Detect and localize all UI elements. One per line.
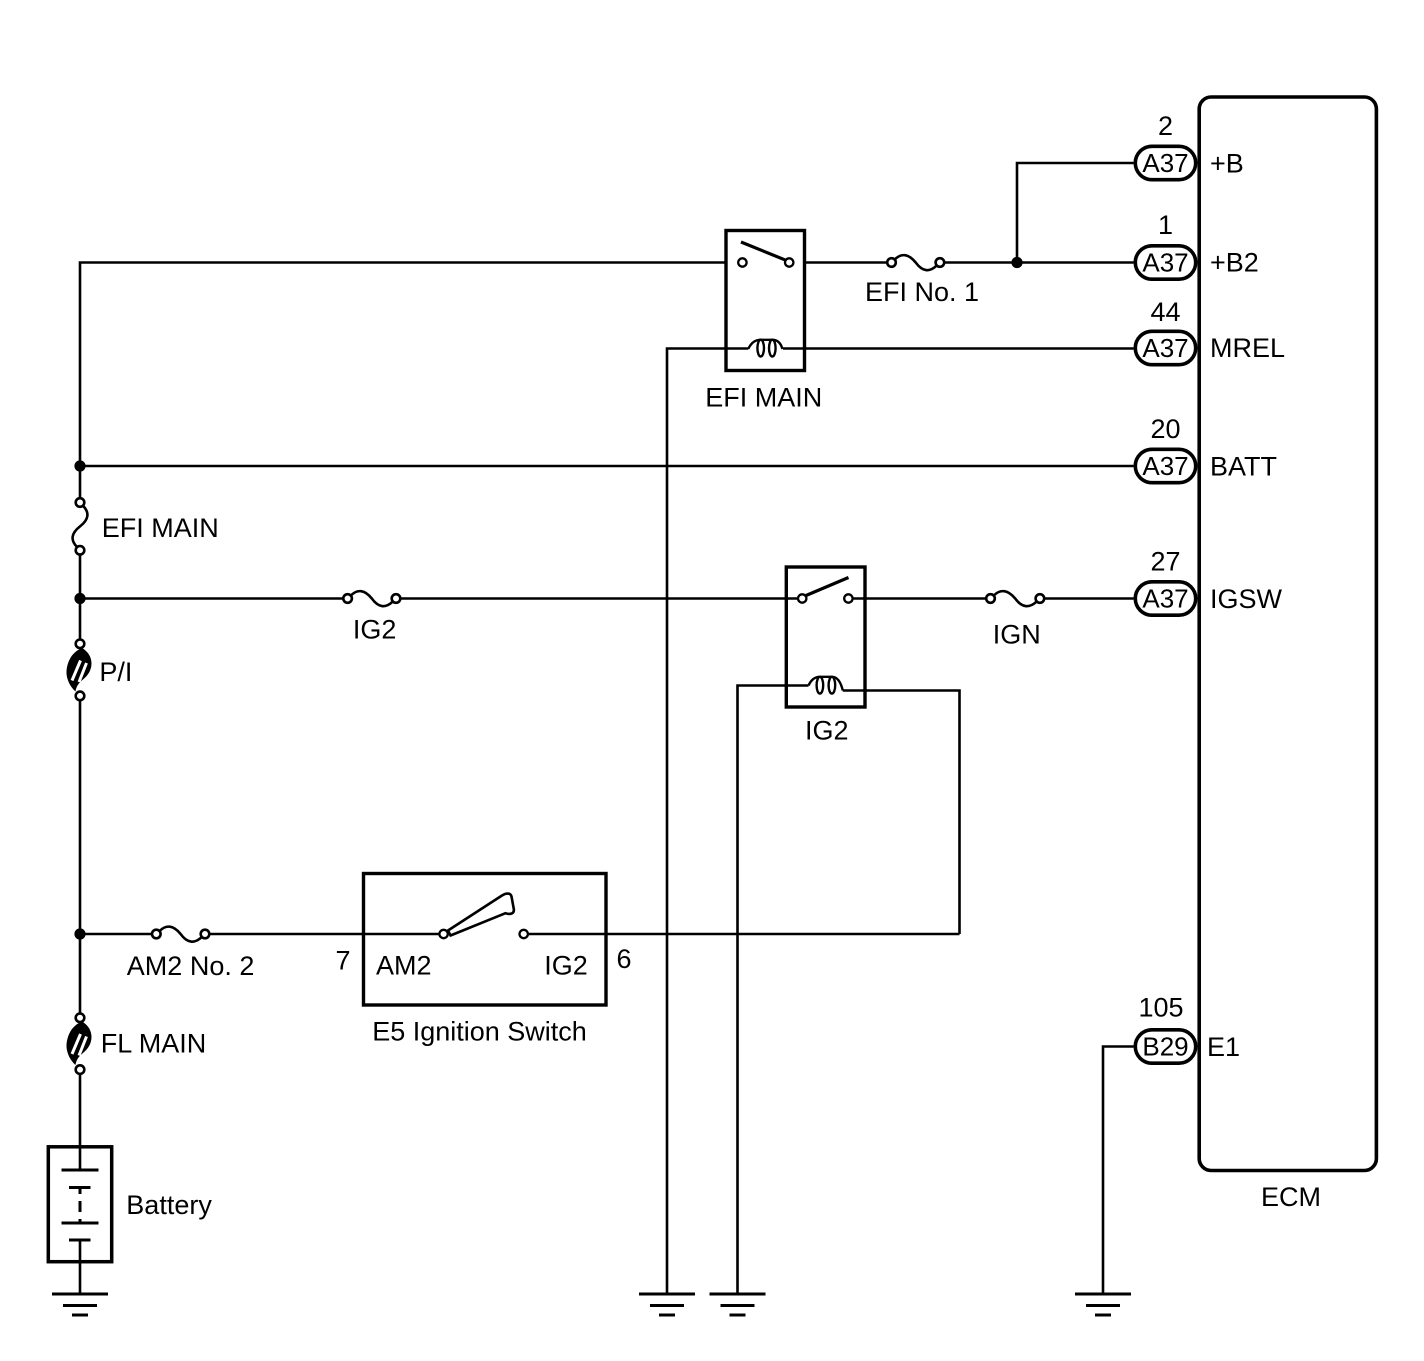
svg-text:IG2: IG2 <box>353 615 397 645</box>
svg-text:27: 27 <box>1150 547 1180 577</box>
svg-text:IG2: IG2 <box>805 716 849 746</box>
svg-text:E1: E1 <box>1207 1032 1240 1062</box>
svg-text:ECM: ECM <box>1261 1182 1321 1212</box>
svg-text:A37: A37 <box>1142 248 1188 278</box>
svg-text:A37: A37 <box>1142 451 1188 481</box>
svg-text:P/I: P/I <box>99 657 132 687</box>
svg-text:EFI MAIN: EFI MAIN <box>102 513 219 543</box>
svg-text:IGSW: IGSW <box>1210 584 1283 614</box>
svg-text:A37: A37 <box>1142 148 1188 178</box>
svg-text:Battery: Battery <box>126 1190 212 1220</box>
svg-text:B29: B29 <box>1142 1032 1188 1062</box>
svg-text:IGN: IGN <box>993 620 1041 650</box>
svg-text:FL MAIN: FL MAIN <box>101 1029 207 1059</box>
svg-text:AM2 No. 2: AM2 No. 2 <box>127 951 255 981</box>
svg-text:1: 1 <box>1158 210 1173 240</box>
svg-text:2: 2 <box>1158 111 1173 141</box>
svg-text:7: 7 <box>335 946 350 976</box>
svg-text:A37: A37 <box>1142 584 1188 614</box>
svg-text:20: 20 <box>1150 414 1180 444</box>
svg-text:E5 Ignition Switch: E5 Ignition Switch <box>372 1017 587 1047</box>
svg-text:BATT: BATT <box>1210 452 1277 482</box>
svg-text:6: 6 <box>616 944 631 974</box>
svg-text:+B: +B <box>1210 149 1244 179</box>
svg-text:44: 44 <box>1150 297 1180 327</box>
svg-text:A37: A37 <box>1142 333 1188 363</box>
svg-text:MREL: MREL <box>1210 333 1285 363</box>
svg-text:EFI MAIN: EFI MAIN <box>705 383 822 413</box>
svg-text:IG2: IG2 <box>544 951 588 981</box>
svg-text:+B2: +B2 <box>1210 248 1259 278</box>
svg-text:105: 105 <box>1138 993 1183 1023</box>
svg-text:EFI No. 1: EFI No. 1 <box>865 277 979 307</box>
svg-text:AM2: AM2 <box>376 951 432 981</box>
